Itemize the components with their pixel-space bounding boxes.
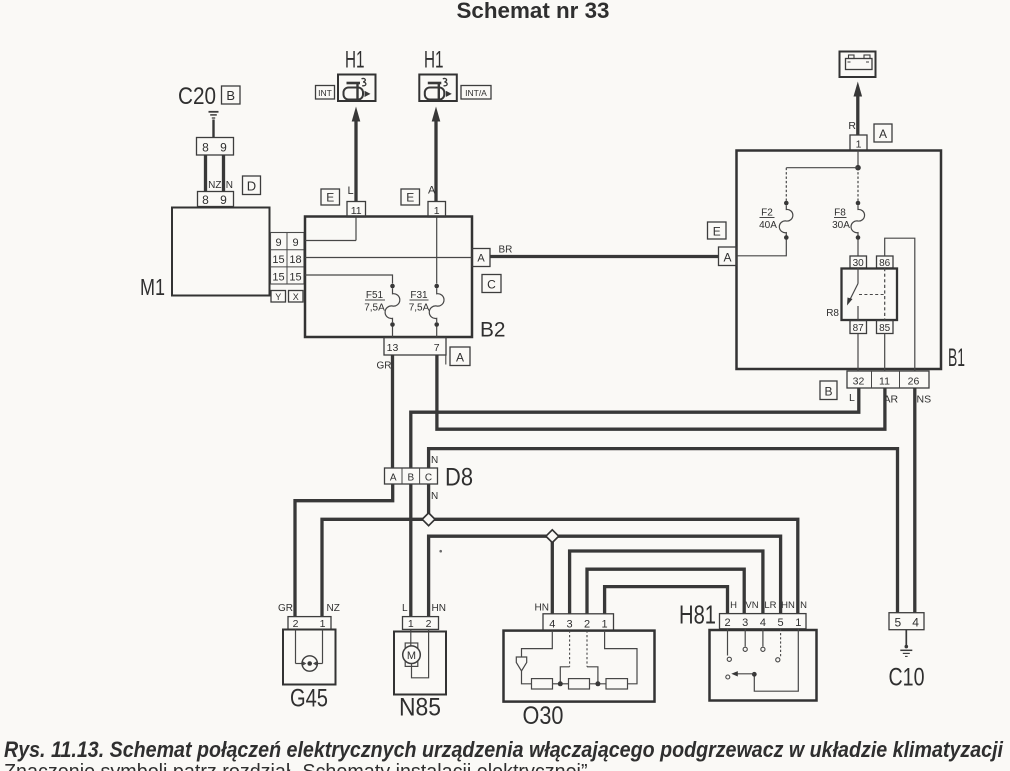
relay pin 87 box bbox=[850, 321, 867, 335]
svg-text:Y: Y bbox=[275, 292, 281, 302]
svg-text:Znaczenie symboli patrz rozdzi: Znaczenie symboli patrz rozdział „Schema… bbox=[4, 761, 593, 771]
H81 wiper feed from pin 1 bbox=[752, 629, 798, 691]
svg-text:15: 15 bbox=[289, 271, 301, 283]
svg-text:2: 2 bbox=[584, 618, 590, 630]
svg-text:L: L bbox=[402, 603, 408, 614]
H81 wiper arm bbox=[726, 671, 755, 679]
svg-text:7: 7 bbox=[434, 342, 440, 354]
wire row 9 inside B2 bbox=[305, 240, 356, 242]
wire pin 86 to pin 26 bbox=[885, 238, 915, 371]
connector code box A (below B2) bbox=[450, 347, 470, 366]
svg-text:1: 1 bbox=[320, 618, 326, 630]
connector code box A (B1 top) bbox=[874, 124, 892, 142]
B2 bottom pin row 13 / 7 bbox=[384, 338, 446, 365]
junction diamond (HN net) bbox=[546, 530, 559, 543]
svg-text:C10: C10 bbox=[889, 664, 925, 692]
wire F8 to relay pin 30 bbox=[857, 240, 859, 257]
svg-text:85: 85 bbox=[879, 323, 891, 334]
wire pin 8 (NZ) bbox=[204, 155, 207, 192]
svg-text:87: 87 bbox=[853, 323, 865, 334]
stray scan dot bbox=[439, 550, 442, 553]
svg-text:4: 4 bbox=[912, 616, 919, 630]
svg-text:R8: R8 bbox=[826, 308, 839, 319]
svg-text:F51: F51 bbox=[366, 290, 384, 301]
svg-text:X: X bbox=[293, 292, 299, 302]
N85 pin row 1 2 bbox=[403, 617, 439, 630]
wire ground to C20 connector bbox=[212, 120, 214, 138]
svg-text:A: A bbox=[390, 472, 397, 483]
O30 thermal fuse bbox=[516, 657, 526, 671]
INT code box bbox=[316, 86, 335, 100]
wire row 15 inside B2 to fuse F51 bbox=[305, 275, 393, 284]
svg-text:32: 32 bbox=[853, 376, 865, 388]
resistor pack O30 body bbox=[504, 631, 655, 702]
svg-text:5: 5 bbox=[778, 617, 784, 629]
connector C20 pin row 8 9 bbox=[197, 138, 234, 156]
svg-text:4: 4 bbox=[760, 617, 766, 629]
svg-text:HN: HN bbox=[781, 600, 795, 611]
wire pin 1 drop to fuse F31 bbox=[436, 217, 438, 284]
connector code box D bbox=[243, 176, 261, 195]
svg-text:E: E bbox=[406, 191, 414, 205]
wire HN branch to O30 pin 4 bbox=[551, 536, 554, 614]
svg-text:B2: B2 bbox=[480, 318, 506, 342]
wire VN O30 pin 2 to H81 pin 3 bbox=[587, 569, 744, 614]
connector code box B (B1 bottom) bbox=[820, 381, 837, 400]
resistor R1 (O30) bbox=[532, 679, 553, 689]
relay pin 86 box bbox=[877, 256, 894, 269]
connector code box E (B1 left) bbox=[708, 222, 727, 239]
control unit B2 bbox=[305, 217, 472, 338]
ground (C10) bbox=[900, 630, 912, 657]
svg-text:Schemat nr 33: Schemat nr 33 bbox=[457, 0, 610, 23]
svg-text:15: 15 bbox=[272, 254, 284, 266]
svg-text:GR: GR bbox=[377, 361, 392, 372]
svg-text:C: C bbox=[487, 278, 496, 292]
svg-text:9: 9 bbox=[220, 141, 227, 155]
wire GR B2 pin 13 to D8 pin A bbox=[391, 355, 394, 468]
relay switch contact bbox=[847, 268, 858, 321]
svg-text:B1: B1 bbox=[948, 344, 965, 372]
svg-text:9: 9 bbox=[275, 237, 281, 249]
G45 internal sensor bbox=[296, 630, 323, 672]
H81 pin row 2 3 4 5 1 bbox=[720, 614, 807, 629]
H81 contact pin 4 bbox=[761, 629, 765, 652]
heater telltale icon box (right H1) bbox=[419, 75, 457, 102]
svg-text:HN: HN bbox=[535, 603, 549, 614]
C10 pin row 5 4 bbox=[889, 613, 924, 630]
relay pin 85 box bbox=[877, 321, 894, 335]
svg-text:2: 2 bbox=[293, 618, 299, 630]
connector code box E (right) bbox=[401, 189, 420, 205]
fuse F2 bbox=[779, 201, 793, 240]
svg-text:A: A bbox=[456, 351, 464, 365]
H81 contact pin 2 bbox=[727, 629, 731, 662]
svg-text:N: N bbox=[800, 600, 807, 611]
svg-text:H81: H81 bbox=[679, 600, 716, 630]
H81 contact pin 3 bbox=[743, 629, 747, 652]
svg-text:E: E bbox=[713, 225, 721, 239]
svg-text:13: 13 bbox=[387, 342, 399, 354]
O30 pin 1 feed wire bbox=[605, 631, 637, 684]
svg-text:1: 1 bbox=[408, 618, 414, 630]
O30 pin 2 tap wire bbox=[587, 631, 598, 682]
resistor R2 (O30) bbox=[569, 679, 590, 689]
svg-text:3: 3 bbox=[567, 618, 573, 630]
relay coil branch 86-85 bbox=[884, 268, 886, 321]
svg-text:N85: N85 bbox=[399, 694, 441, 722]
svg-text:5: 5 bbox=[895, 616, 902, 630]
svg-text:LR: LR bbox=[764, 600, 776, 611]
wire F2 to connector A (B1 left) bbox=[737, 240, 787, 256]
connector M1 pin row 8 9 bbox=[198, 192, 234, 207]
svg-text:3: 3 bbox=[742, 617, 748, 629]
wire HN N85 pin 2 to H81 pin 5 bbox=[429, 536, 781, 617]
N85 internal motor bbox=[403, 629, 429, 677]
svg-text:1: 1 bbox=[795, 617, 801, 629]
svg-text:2: 2 bbox=[724, 617, 730, 629]
M1/B2 pin column grid bbox=[271, 233, 305, 285]
svg-text:7,5A: 7,5A bbox=[364, 303, 385, 314]
svg-text:L: L bbox=[348, 185, 354, 197]
svg-text:11: 11 bbox=[879, 376, 890, 388]
svg-text:N: N bbox=[431, 491, 438, 502]
svg-text:D: D bbox=[247, 179, 256, 194]
connector code box E (left) bbox=[321, 189, 340, 205]
svg-text:8: 8 bbox=[202, 141, 209, 155]
svg-text:A: A bbox=[477, 253, 485, 265]
connector A on B2 right edge bbox=[472, 249, 490, 267]
svg-text:BR: BR bbox=[499, 245, 513, 256]
svg-text:C: C bbox=[425, 472, 432, 483]
relay actuation dashed line bbox=[859, 294, 884, 296]
connector code box C (right of B2) bbox=[482, 275, 501, 293]
svg-text:1: 1 bbox=[434, 205, 440, 217]
fuse/relay unit B1 bbox=[737, 151, 942, 370]
wire junction to F2 branch bbox=[786, 168, 858, 201]
svg-text:O30: O30 bbox=[523, 702, 564, 730]
svg-text:B: B bbox=[407, 472, 414, 483]
svg-text:NZ: NZ bbox=[327, 603, 340, 614]
wire F31 to pin 7 bbox=[436, 327, 438, 338]
INT/A code box bbox=[461, 86, 491, 100]
svg-text:30A: 30A bbox=[832, 220, 850, 231]
svg-text:N: N bbox=[431, 455, 438, 466]
wire L B1 pin 32 to D8 pin B bbox=[411, 388, 859, 468]
svg-text:7,5A: 7,5A bbox=[409, 303, 430, 314]
wire LR O30 pin 3 to H81 pin 4 bbox=[570, 551, 763, 614]
svg-text:A: A bbox=[428, 185, 436, 197]
O30 pin row 4 3 2 1 bbox=[543, 614, 614, 631]
relay R8 bbox=[842, 269, 898, 321]
svg-text:M1: M1 bbox=[140, 274, 165, 300]
svg-text:A: A bbox=[879, 127, 887, 141]
svg-text:D8: D8 bbox=[445, 464, 473, 492]
svg-text:L: L bbox=[849, 392, 855, 404]
wire NS B1 pin 26 to C10 pin 4 bbox=[913, 388, 916, 613]
svg-text:F8: F8 bbox=[834, 208, 846, 219]
svg-text:E: E bbox=[326, 191, 334, 205]
svg-text:18: 18 bbox=[289, 254, 301, 266]
connector D8 bbox=[385, 468, 438, 484]
svg-text:9: 9 bbox=[220, 193, 227, 207]
B2 pin 1 box bbox=[428, 202, 446, 218]
pump motor N85 body bbox=[394, 632, 446, 695]
wire H O30 pin 1 to H81 pin 2 bbox=[605, 587, 728, 614]
svg-text:1: 1 bbox=[856, 139, 862, 151]
wire F51 to pin 13 bbox=[392, 327, 394, 338]
connector code box B (C20) bbox=[222, 86, 241, 104]
wire arrow battery to B1 pin 1 (R) bbox=[854, 82, 863, 136]
resistor R3 (O30) bbox=[606, 679, 628, 689]
svg-text:9: 9 bbox=[292, 237, 298, 249]
svg-text:N: N bbox=[226, 180, 233, 191]
wire N bus G45 pin 1 to H81 pin 1 bbox=[322, 519, 798, 617]
svg-text:1: 1 bbox=[602, 618, 608, 630]
G45 pin row 2 1 bbox=[288, 617, 331, 630]
B2 pin 11 box bbox=[347, 202, 366, 218]
svg-text:VN: VN bbox=[745, 600, 758, 611]
junction diamond (N net) bbox=[422, 513, 435, 526]
svg-text:8: 8 bbox=[202, 193, 209, 207]
svg-text:H1: H1 bbox=[424, 47, 444, 74]
battery symbol bbox=[840, 52, 876, 78]
relay pin 30 box bbox=[850, 256, 867, 269]
wire R2 to R3 with node bbox=[590, 681, 607, 686]
F2 value label bbox=[759, 208, 777, 232]
O30 pin 3 tap wire bbox=[560, 631, 569, 682]
svg-text:F31: F31 bbox=[410, 290, 428, 301]
wire BR (B2 to B1) bbox=[490, 255, 719, 258]
wire arrow to right H1 bbox=[432, 107, 441, 202]
svg-text:F2: F2 bbox=[761, 208, 773, 219]
F31 value label bbox=[409, 290, 430, 314]
wire fuse to R1 bbox=[522, 671, 532, 684]
svg-text:HN: HN bbox=[432, 603, 446, 614]
svg-text:C20: C20 bbox=[178, 83, 216, 110]
O30 pin 4 feed wire bbox=[522, 631, 553, 657]
svg-text:INT/A: INT/A bbox=[465, 88, 487, 98]
wire AR B2 pin 7 to B1 pin 11 bbox=[437, 355, 885, 429]
switch H81 body bbox=[710, 630, 817, 701]
sensor G45 body bbox=[283, 630, 336, 685]
svg-text:B: B bbox=[226, 88, 235, 103]
wire pin 1 down to F8 bbox=[857, 151, 859, 168]
B1 pin 1 box bbox=[850, 135, 867, 151]
wire L D8 pin B to N85 pin 1 bbox=[409, 484, 412, 617]
wire pin 11 drop inside B2 bbox=[355, 217, 357, 241]
wire R1 to R2 with node bbox=[553, 681, 569, 686]
svg-text:INT: INT bbox=[318, 88, 332, 98]
svg-text:H: H bbox=[730, 600, 737, 611]
fuse F8 bbox=[851, 201, 865, 240]
svg-text:4: 4 bbox=[549, 618, 555, 630]
svg-text:R: R bbox=[848, 120, 856, 132]
svg-text:B: B bbox=[824, 385, 832, 399]
svg-text:15: 15 bbox=[272, 271, 284, 283]
B1 bottom pin row 32 11 26 bbox=[847, 371, 929, 388]
H81 contact pin 5 bbox=[776, 629, 781, 662]
svg-text:H1: H1 bbox=[345, 47, 365, 74]
svg-text:G45: G45 bbox=[290, 685, 328, 713]
svg-text:NZ: NZ bbox=[208, 180, 221, 191]
svg-text:A: A bbox=[723, 251, 731, 265]
fuse F31 bbox=[429, 284, 444, 327]
wire arrow to left H1 bbox=[352, 107, 361, 202]
F8 value label bbox=[832, 208, 850, 232]
wire pin 9 (N) bbox=[222, 155, 225, 192]
wire row 18 inside B2 to connector A bbox=[305, 257, 472, 259]
heater telltale icon box (left H1) bbox=[338, 75, 376, 102]
svg-text:26: 26 bbox=[908, 376, 920, 388]
B1 left pin A box bbox=[719, 247, 737, 266]
junction node bbox=[855, 165, 861, 171]
wire pin 87 to pin 32 bbox=[857, 334, 859, 372]
svg-text:Rys. 11.13. Schemat połączeń e: Rys. 11.13. Schemat połączeń elektryczny… bbox=[4, 737, 1004, 762]
wire N D8 pin C to C10 pin 5 bbox=[429, 449, 898, 613]
fuse F51 bbox=[385, 284, 400, 327]
connector code box X bbox=[289, 291, 304, 303]
svg-text:NS: NS bbox=[917, 394, 932, 406]
ground (C20) bbox=[209, 112, 219, 118]
svg-text:M: M bbox=[407, 650, 416, 662]
control unit M1 bbox=[172, 208, 270, 296]
wire pin 85 to pin 11 bbox=[884, 334, 886, 372]
F51 value label bbox=[364, 290, 385, 314]
svg-text:40A: 40A bbox=[759, 220, 777, 231]
svg-text:2: 2 bbox=[426, 618, 432, 630]
svg-text:11: 11 bbox=[351, 205, 362, 217]
connector code box Y bbox=[271, 291, 286, 303]
svg-text:GR: GR bbox=[278, 603, 293, 614]
wire GR D8 pin A to G45 pin 2 bbox=[295, 484, 393, 617]
wire N D8 pin C down to junction bbox=[427, 484, 430, 514]
